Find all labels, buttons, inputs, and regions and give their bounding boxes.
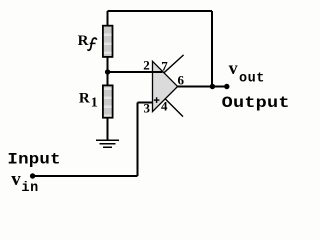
wire pin 3 stub [138,101,153,103]
wire node down to R1 [107,72,109,85]
plus sign at non-inverting input [154,97,160,103]
wire R1 bottom to ground [107,118,109,140]
svg-text:R: R [79,91,90,107]
wire node to op-amp pin 2 [108,71,163,73]
svg-text:2: 2 [143,58,150,73]
svg-text:1: 1 [91,95,98,110]
resistor R1 [103,85,113,117]
node Vout terminal [224,84,229,89]
svg-text:4: 4 [161,99,168,114]
op-amp U1 [153,61,178,111]
node feedback junction [210,84,215,89]
svg-text:R: R [78,33,89,49]
pin 7 line (V+) [164,55,184,73]
svg-text:in: in [21,181,38,196]
wire right vertical feedback drop [211,11,213,87]
resistor Rf [103,26,113,57]
wire Rf bottom to node [107,57,109,72]
node junction of Rf R1 and pin2 [105,69,110,74]
svg-text:v: v [229,58,238,78]
wire top horizontal rail [108,10,213,12]
svg-text:v: v [11,169,21,190]
svg-text:Input: Input [7,151,60,169]
wire op-amp output to Vout [177,86,228,88]
pin 4 line (V-) [165,99,183,117]
svg-text:7: 7 [161,59,168,74]
svg-text:Output: Output [222,95,290,113]
ground [96,140,119,147]
node Vin terminal [30,173,35,178]
svg-text:out: out [239,71,265,86]
wire input vertical riser [137,102,139,176]
wire from top of Rf up to top rail [107,11,109,26]
svg-text:6: 6 [178,72,185,87]
wire input horizontal from Vin [33,175,138,177]
